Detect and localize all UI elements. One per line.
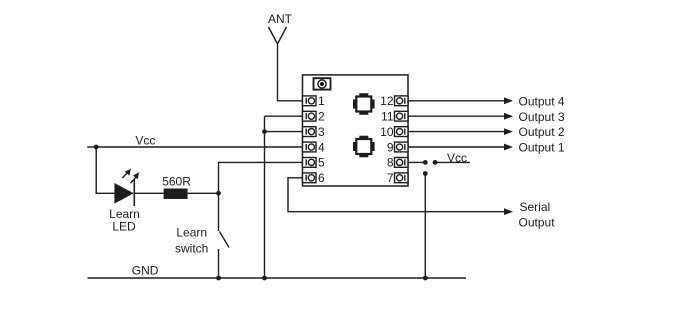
svg-text:6: 6 [318,171,325,185]
wire junction to pin 5 [219,162,303,193]
pin 12 [395,96,409,106]
svg-text:ANT: ANT [268,12,293,26]
pin 2 [303,111,317,121]
svg-text:9: 9 [387,140,394,154]
junction LED-switch-pin5 [216,191,221,196]
svg-text:560R: 560R [162,175,191,189]
wire pin 8 stub [408,161,425,163]
pin 11 [395,111,409,121]
junction Vcc left [94,145,99,150]
wire antenna to pin 1 [278,44,303,101]
svg-text:5: 5 [318,156,325,170]
svg-text:Output 2: Output 2 [519,125,565,139]
wire pin 2 stub [265,115,303,117]
svg-text:Output 1: Output 1 [519,141,565,155]
wire pin 10 to Output 2 [408,131,505,133]
wire pin 6 to Serial Output [288,178,505,212]
junction below pin 8 [423,171,428,176]
wire pin 11 to Output 3 [408,115,505,117]
pin 9 [395,142,409,152]
pin 8 [395,158,409,168]
wire pin 3 stub [265,131,303,133]
svg-text:Output 4: Output 4 [519,94,565,108]
LED light arrow 2 [130,172,139,183]
svg-text:4: 4 [318,140,325,154]
pin 7 [395,173,409,183]
svg-text:12: 12 [380,94,394,108]
wire pin 9 to Output 1 [408,146,505,148]
junction ground right [423,276,428,281]
svg-text:11: 11 [381,110,394,124]
svg-text:10: 10 [380,125,394,139]
module U1 body [303,75,409,186]
LED D1 Learn LED [114,179,134,206]
wire Vcc rail [87,146,302,148]
wire down to ground rail [424,174,426,279]
wire resistor to junction [188,192,219,194]
pin 6 [303,173,317,183]
antenna symbol [269,27,287,44]
junction pin 3 [262,129,267,134]
junction ground middle [262,276,267,281]
svg-text:8: 8 [387,156,394,170]
svg-text:LED: LED [112,219,136,233]
resonator X2 [353,136,375,158]
pin 3 [303,127,317,137]
svg-text:Vcc: Vcc [447,151,467,165]
svg-text:GND: GND [132,264,159,278]
svg-text:Serial: Serial [520,200,551,214]
wire pin 12 to Output 4 [408,100,505,102]
module antenna pad indicator [314,78,331,89]
resistor R1 560R [164,189,188,200]
LED light arrow 1 [122,169,130,178]
junction pin 8 [423,160,428,165]
svg-text:3: 3 [318,125,325,139]
pin 5 [303,158,317,168]
switch S1 Learn switch [219,193,230,278]
wire LED to resistor [134,192,163,194]
junction Vcc stub [433,160,438,165]
wire pins 2,3 down to ground rail [264,116,266,278]
junction switch ground [216,276,221,281]
wire Vcc down to LED [96,147,114,193]
svg-text:switch: switch [175,242,208,256]
wire ground rail [88,277,467,279]
svg-text:Output: Output [519,216,556,230]
svg-text:2: 2 [318,110,325,124]
pin 10 [395,127,409,137]
pin 1 [303,96,317,106]
resonator X1 [353,93,375,115]
svg-text:1: 1 [318,94,325,108]
wire Vcc stub right [435,161,470,163]
svg-text:Vcc: Vcc [135,134,155,148]
pin 4 [303,142,317,152]
svg-text:Learn: Learn [176,226,207,240]
svg-text:Output 3: Output 3 [519,110,565,124]
svg-text:7: 7 [387,171,394,185]
